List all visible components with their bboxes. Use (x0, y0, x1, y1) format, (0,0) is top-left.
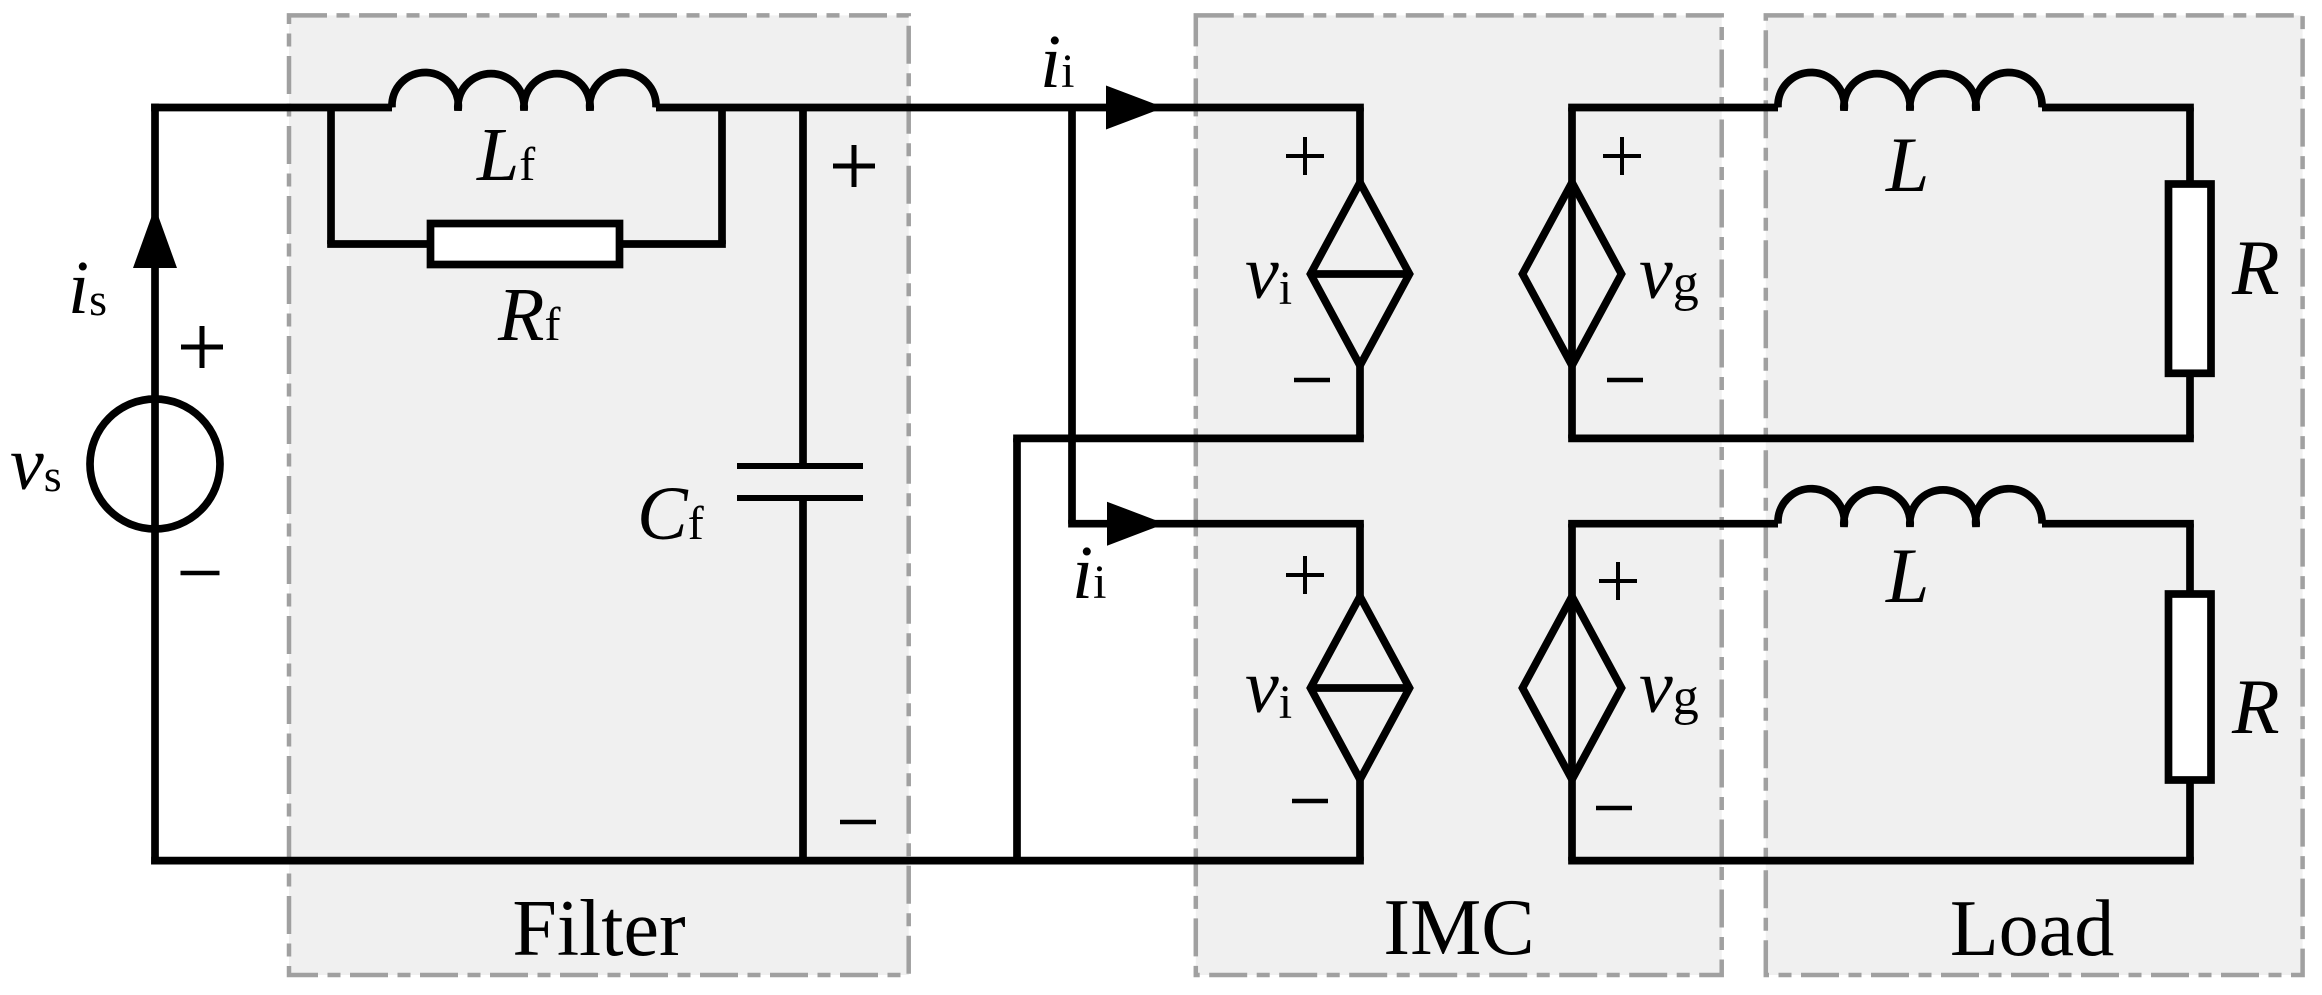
wire: Lf/Rf right leg (718, 108, 726, 245)
wire: upper vi top lead (1356, 108, 1364, 183)
wire: upper rail to R (2042, 104, 2194, 112)
resistor R (lower) (2169, 594, 2212, 780)
wire: top rail left segment (151, 104, 392, 112)
wire: lower ii horizontal (1068, 520, 1364, 528)
wire: upper vg loop top rail (1568, 104, 1778, 112)
wire: upper vi bottom rail (1013, 435, 1364, 443)
wire: lower rail to R (2042, 520, 2194, 528)
wire: upper vg vertical (through diamond) (1568, 108, 1576, 439)
capacitor Cf top plate (737, 463, 863, 469)
Load block box (1766, 15, 2303, 975)
svg-text:R: R (2231, 224, 2280, 311)
wire: upper vg loop bottom rail (1568, 435, 2194, 443)
wire: lower vg vertical (through diamond) (1568, 524, 1576, 861)
wire: lower vi bottom lead (1356, 780, 1364, 861)
wire: Lf/Rf left leg (327, 108, 335, 245)
IMC block box (1196, 15, 1722, 975)
svg-text:L: L (1885, 121, 1929, 208)
wire: vertical junction to lower ii wire (1068, 108, 1076, 524)
svg-text:Filter: Filter (512, 885, 685, 973)
capacitor Cf bottom plate (737, 495, 863, 501)
plus at lower vg (1599, 579, 1637, 583)
dependent source vi (upper) (1311, 183, 1410, 366)
wire: capacitor top lead (799, 108, 807, 464)
svg-text:Load: Load (1950, 885, 2114, 973)
minus at upper vg (1607, 378, 1643, 383)
wire: lower vi top lead (1356, 524, 1364, 597)
wire: Rf branch left (327, 240, 430, 248)
wire: lower R top lead (2186, 524, 2194, 595)
resistor Rf (431, 224, 620, 265)
inductor L (lower) (1778, 489, 2042, 527)
wire: left vertical from source (151, 104, 159, 865)
wire: lower R bottom lead (2186, 779, 2194, 861)
plus at Cf (833, 164, 875, 169)
plus at upper vi (1286, 154, 1324, 158)
arrow ii (upper) (1106, 86, 1164, 130)
minus at upper vi (1294, 378, 1330, 383)
wire: main bottom rail (151, 857, 1364, 865)
wire: vertical from upper vi rail to bottom (1013, 438, 1021, 860)
arrow is (source current) (133, 207, 177, 268)
dependent source vg (lower) (1523, 597, 1622, 780)
Filter block box (289, 15, 909, 975)
resistor R (upper) (2169, 184, 2212, 373)
plus at lower vi (1286, 573, 1324, 577)
wire: lower vg loop top rail (1568, 520, 1778, 528)
wire: upper R bottom lead (2186, 372, 2194, 438)
inductor L (upper) (1778, 72, 2042, 110)
wire: Rf branch right (620, 240, 726, 248)
dependent source vg (upper) (1523, 183, 1622, 366)
wire: top rail after Lf to upper vi (656, 104, 1364, 112)
arrow ii (lower) (1107, 502, 1165, 546)
minus at source (181, 571, 220, 576)
wire: lower vg loop bottom rail (1568, 857, 2194, 865)
minus at lower vg (1596, 806, 1632, 811)
voltage source vs circle (90, 399, 220, 529)
inductor Lf (392, 72, 656, 110)
svg-text:R: R (2231, 663, 2280, 750)
plus at source (181, 345, 223, 350)
dependent source vi (lower) (1311, 597, 1410, 780)
svg-text:IMC: IMC (1383, 884, 1534, 972)
wire: upper R top lead (2186, 108, 2194, 186)
wire: upper vi bottom lead (1356, 366, 1364, 439)
wire: capacitor bottom lead (799, 501, 807, 861)
plus at upper vg (1603, 154, 1641, 158)
minus at lower vi (1292, 799, 1328, 804)
minus at Cf (840, 820, 876, 825)
svg-text:L: L (1885, 532, 1929, 619)
